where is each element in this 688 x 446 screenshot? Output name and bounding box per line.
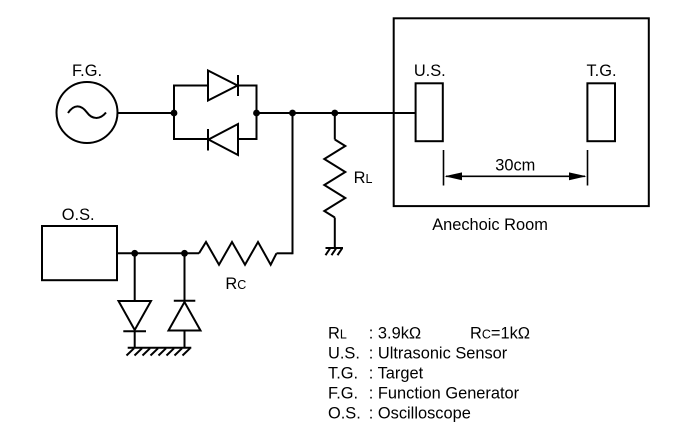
svg-text:O.S.: O.S. bbox=[328, 405, 361, 423]
svg-text:U.S.: U.S. bbox=[414, 62, 446, 80]
svg-text:30cm: 30cm bbox=[495, 157, 535, 175]
svg-text:Anechoic Room: Anechoic Room bbox=[432, 216, 548, 234]
svg-text:T.G.: T.G. bbox=[328, 365, 358, 383]
svg-text:RC: RC bbox=[225, 275, 246, 293]
svg-text:F.G.: F.G. bbox=[72, 62, 102, 80]
svg-text:: Target: : Target bbox=[369, 365, 424, 383]
svg-text:RL: RL bbox=[328, 324, 347, 342]
svg-text:RL: RL bbox=[354, 169, 373, 187]
svg-text:U.S.: U.S. bbox=[328, 344, 360, 362]
svg-text:O.S.: O.S. bbox=[62, 206, 95, 224]
svg-text:: Ultrasonic Sensor: : Ultrasonic Sensor bbox=[369, 344, 508, 362]
svg-text:: Oscilloscope: : Oscilloscope bbox=[369, 405, 471, 423]
svg-text:: 3.9kΩ: : 3.9kΩ bbox=[369, 324, 421, 342]
svg-text:T.G.: T.G. bbox=[586, 62, 616, 80]
svg-text:F.G.: F.G. bbox=[328, 385, 358, 403]
svg-text:RC=1kΩ: RC=1kΩ bbox=[470, 324, 530, 342]
svg-text:: Function Generator: : Function Generator bbox=[369, 385, 520, 403]
